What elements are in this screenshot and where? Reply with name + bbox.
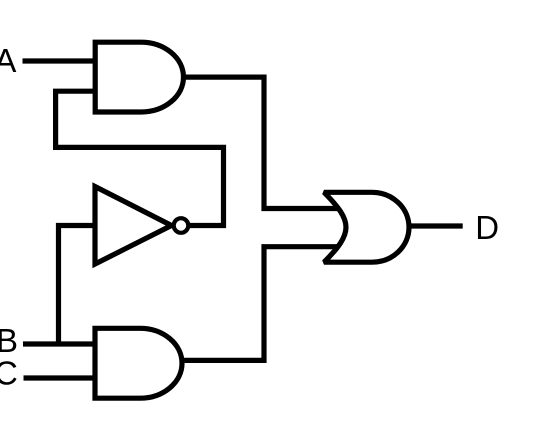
wire A to AND gate G1 input 1 (23, 58, 97, 63)
OR gate G4 (324, 192, 409, 262)
NOT gate G2 triangle (95, 187, 172, 265)
svg-text:C: C (0, 354, 18, 391)
wire C to AND gate G3 input 2 (24, 375, 97, 380)
wire B to AND gate G3 input 1 (23, 341, 96, 346)
wire AND gate G1 output to OR gate G4 input 1 (183, 77, 340, 208)
wire AND gate G3 output to OR gate G4 input 2 (182, 247, 341, 361)
AND gate G3 (95, 328, 182, 398)
AND gate G1 (95, 42, 183, 112)
wire B to NOT gate G2 input (59, 226, 95, 345)
svg-text:A: A (0, 42, 16, 79)
NOT gate G2 inversion bubble (174, 218, 189, 233)
svg-text:D: D (475, 209, 499, 246)
wire OR gate G4 output to D (408, 223, 463, 228)
wire NOT gate G2 output to AND gate G1 input 2 (56, 91, 224, 225)
